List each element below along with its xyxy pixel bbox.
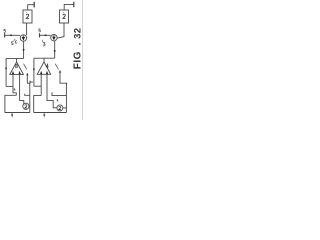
op-amp output stub [16,58,18,62]
arrow inside source 1 [22,36,24,41]
tick label left of feedback [30,81,33,83]
arrowhead up left input [40,71,42,74]
svg-text:FIG: FIG [73,51,83,69]
label 2 in box [26,14,29,18]
wire T1 to box 2 [28,5,35,10]
current source circle 3 [51,35,57,41]
op-amp triangle 4 [37,62,51,74]
bus wire (output node) [6,57,24,59]
terminal left input (right cell) [39,33,41,37]
wire source 3 down to bus [54,41,56,58]
label 5 with leader [11,42,13,45]
arrowhead on input wire [44,34,47,36]
amp right input wire [47,74,57,108]
arrowhead down on feedback [33,69,35,72]
arrowhead down on wire [23,49,25,52]
wire box 2 to source circle [26,23,28,35]
source circle 4 (bottom) [57,105,63,111]
sense loop 2 left [34,96,42,113]
svg-text:.: . [73,42,83,45]
tick label on input [13,88,16,90]
arrow up right path [59,70,61,73]
label 4 in triangle [46,64,48,68]
tiny mark near input path [56,99,59,101]
resistor box 2 [23,10,32,23]
wire source 1 down to bus [23,41,25,58]
feedback horizontal [34,85,41,87]
feedback wire left down [5,58,7,86]
terminal T1 (top left) [33,2,35,8]
feedback wire down [33,58,35,86]
right side path down [27,75,30,113]
sense loop bottom [5,112,30,114]
arrowhead up right input [46,71,48,74]
loop 2 top right segment with stub [52,92,66,95]
arrowhead up left input [12,71,14,74]
arrowhead down on feedback [5,68,7,71]
terminal left input [4,33,6,37]
arrowhead on input wire (left) [9,34,12,36]
resistor box 2' [60,10,69,23]
page edge line [81,0,83,120]
svg-text:32: 32 [73,28,83,39]
amp right input wire [20,74,24,104]
op-amp triangle 8 [10,62,24,74]
sense loop 2 bottom [34,112,67,114]
sense loop left [5,95,16,112]
arrow up right side path [26,73,28,76]
wire terminal to source 3 [40,34,51,36]
amp left input wire [40,74,42,95]
loop top right segment with hook [25,94,30,96]
leader diagonal right of triangle [24,64,27,70]
current source circle 1 [20,35,26,41]
right side path down [60,72,67,113]
wire terminal to source 1 [5,34,21,36]
leader diagonal right [55,64,58,70]
wire T2 to box 2' [64,4,74,10]
arrow inside source 3 [53,35,55,40]
source circle 2 (bottom) [23,103,29,109]
arrowhead down [54,50,56,53]
label 6 near circle [15,41,17,44]
glyph in circle 2 [25,105,27,108]
label 2 in box 2' [63,14,66,18]
wire box 2' jog to source 3 [57,23,64,38]
label 3 with leader [43,43,45,46]
label 5 above terminal [39,29,41,32]
bus wire right cell [34,57,55,59]
stub circle 4 to loop right [63,107,67,109]
terminal T2 (top right) [73,2,75,7]
arrowhead up right input [19,71,21,74]
label 1 below loop [11,114,13,116]
label 5 above terminal [4,29,6,32]
amp left input wire [13,74,16,95]
stub circle 2 to loop right [28,105,31,107]
label 8 in triangle [16,64,18,66]
label 2 below loop [43,114,45,116]
op-amp output stub [43,58,45,62]
feedback horizontal to amp input [6,85,13,87]
glyph in circle 4 [59,106,61,109]
